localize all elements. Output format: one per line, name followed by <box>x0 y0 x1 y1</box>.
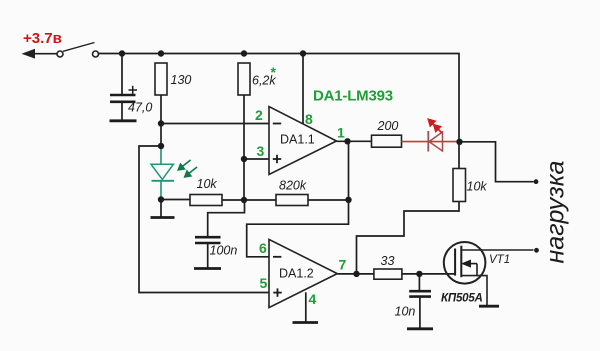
svg-text:DA1-LM393: DA1-LM393 <box>313 88 393 105</box>
svg-text:130: 130 <box>171 73 192 87</box>
power +3.7V terminal arrow <box>22 49 36 59</box>
wire: 100n bottom lead to ground <box>207 243 209 268</box>
wire: node A to photodiode tap <box>160 124 162 149</box>
junction: rail at C1 <box>119 50 125 56</box>
op-amp DA1.1 triangle <box>269 107 337 175</box>
switch SA1 lever <box>63 43 95 52</box>
svg-text:+3.7в: +3.7в <box>23 30 62 47</box>
wire: DA1.1 out node down-left to DA1.2 pin6 <box>247 200 349 257</box>
svg-text:КП505А: КП505А <box>441 293 483 305</box>
junction: LED / R6 / load node <box>456 139 462 145</box>
transistor VT1 source lead <box>461 276 487 305</box>
op-amp DA1.2 triangle <box>269 239 337 307</box>
wire: 820k right to output node <box>308 199 349 201</box>
svg-text:100n: 100n <box>210 244 238 258</box>
photodiode VD1 triangle <box>151 164 173 179</box>
wire: R10k(out) bottom to DA1.2 pin7 node <box>357 202 460 275</box>
svg-text:DA1.1: DA1.1 <box>280 133 315 147</box>
junction: R7 / C3 node <box>416 271 422 277</box>
wire: DA1.1 output to R200 <box>337 140 372 142</box>
LED HL1 cathode bar <box>427 131 429 152</box>
resistor R6 10k body (vertical, output) <box>453 169 466 202</box>
switch SA1 contact circle left <box>57 51 63 57</box>
svg-text:VT1: VT1 <box>489 254 510 266</box>
svg-text:10n: 10n <box>395 305 416 319</box>
transistor VT1 channel bar <box>460 246 462 278</box>
LED HL1 emission arrow 1 <box>428 119 442 133</box>
wire: output node down to 820k right <box>348 141 350 200</box>
resistor R2 6,2k body <box>238 63 250 95</box>
wire: R130 bottom lead to node A <box>160 95 162 124</box>
wire: 6.2k bottom lead down to divider node <box>243 95 245 200</box>
svg-text:2: 2 <box>255 107 263 123</box>
junction: rail at pin8 <box>300 50 306 56</box>
wire: 100n tap jog <box>208 200 245 236</box>
resistor R4 820k body <box>276 195 308 206</box>
svg-text:6: 6 <box>259 240 267 256</box>
wire: pin3 input wire <box>244 158 269 160</box>
svg-text:4: 4 <box>309 291 317 307</box>
switch SA1 contact circle right <box>93 51 99 57</box>
junction: divider node R3/R4 <box>241 197 247 203</box>
op-amp DA1.1 plus sign <box>273 155 281 163</box>
junction: DA1.2 pin7 node <box>353 271 359 277</box>
op-amp DA1.2 minus sign <box>273 256 281 258</box>
wire: R10k right to divider node <box>222 199 244 201</box>
wire: input terminal lead <box>30 53 57 55</box>
photodiode VD1 lead upper (green) <box>160 147 162 164</box>
junction: 820k right / pin6 node <box>345 197 351 203</box>
wire: photodiode anode node to DA1.2 pin5 <box>139 146 269 293</box>
wire: DA1.1 pin8 supply lead <box>302 54 304 125</box>
ground bar under photodiode <box>151 216 175 219</box>
ground bar under C2 <box>194 267 221 270</box>
svg-text:*: * <box>271 64 277 80</box>
wire: 47uF cap top lead <box>121 54 123 95</box>
resistor R5 200 body <box>372 135 402 147</box>
load lower terminal dot <box>534 248 539 253</box>
capacitor C2 100n plates <box>195 237 221 243</box>
op-amp DA1.2 plus sign <box>273 288 281 296</box>
junction: photodiode cathode / R3 left <box>158 196 164 202</box>
junction: photodiode anode / pin5 tap <box>158 143 164 149</box>
wire: 10n cap top lead <box>418 274 420 291</box>
svg-text:820k: 820k <box>279 179 307 193</box>
wire: divider node to 820k left <box>244 199 276 201</box>
op-amp DA1.1 minus sign <box>273 123 281 125</box>
svg-text:3: 3 <box>257 143 265 159</box>
svg-text:DA1.2: DA1.2 <box>279 267 314 281</box>
capacitor C1 plus sign <box>129 86 138 94</box>
svg-text:8: 8 <box>305 111 313 127</box>
svg-text:10k: 10k <box>467 180 488 194</box>
photodiode VD1 lead lower (green) <box>160 181 162 199</box>
photodiode light arrow 1 <box>178 160 197 177</box>
transistor VT1 substrate arrow <box>462 260 477 275</box>
junction: pin3 tap on R2 lead <box>241 156 247 162</box>
photodiode VD1 cathode bar <box>152 180 175 182</box>
wire: photodiode cathode node to R10k left <box>161 199 190 201</box>
svg-text:10k: 10k <box>197 177 218 191</box>
wire: +3.7V top rail <box>99 54 460 169</box>
ground bar under C3 <box>407 327 433 330</box>
junction: DA1.1 output node <box>344 138 350 144</box>
transistor VT1 gate bar <box>454 249 456 276</box>
wire: pin2 input wire <box>161 123 269 125</box>
svg-text:7: 7 <box>339 257 347 273</box>
wire: 10n cap bottom lead to ground <box>419 297 421 329</box>
photodiode light arrow 2 <box>189 167 198 174</box>
ground bar under VT1 source <box>479 305 499 308</box>
junction: rail at R1 <box>158 50 164 56</box>
transistor VT1 body circle <box>444 242 486 284</box>
capacitor C1 47,0 plates <box>110 95 136 102</box>
wire: LED junction to load upper terminal <box>460 142 534 182</box>
wire: photodiode ground lead <box>160 200 162 218</box>
transistor VT1 drain lead to load lower terminal <box>461 249 533 251</box>
svg-text:200: 200 <box>377 119 399 133</box>
svg-text:нагрузка: нагрузка <box>542 160 570 263</box>
ground bar under C1 <box>110 119 137 122</box>
load upper terminal dot <box>534 179 539 184</box>
LED HL1 wire (red) <box>402 141 460 143</box>
svg-text:47,0: 47,0 <box>128 101 152 115</box>
resistor R7 33 body <box>374 269 402 279</box>
svg-text:5: 5 <box>260 275 268 291</box>
junction: rail at R2 <box>241 50 247 56</box>
junction: node A (R1/pin2) <box>158 120 164 126</box>
LED HL1 triangle <box>429 132 443 151</box>
wire: DA1.2 pin7 output to R33 <box>337 273 374 275</box>
wire: R33 to VT1 gate <box>402 273 455 275</box>
svg-text:1: 1 <box>337 125 345 141</box>
svg-text:33: 33 <box>381 254 395 268</box>
ground bar for DA1.2 pin4 <box>293 321 319 324</box>
resistor R1 130 body <box>155 63 167 95</box>
capacitor C3 10n plates <box>409 291 431 296</box>
LED HL1 emission arrow 2 <box>438 129 443 134</box>
resistor R3 10k body (horizontal) <box>190 195 222 206</box>
wire: DA1.2 pin4 ground lead <box>305 292 307 322</box>
wire: 47uF cap ground lead <box>121 102 123 121</box>
